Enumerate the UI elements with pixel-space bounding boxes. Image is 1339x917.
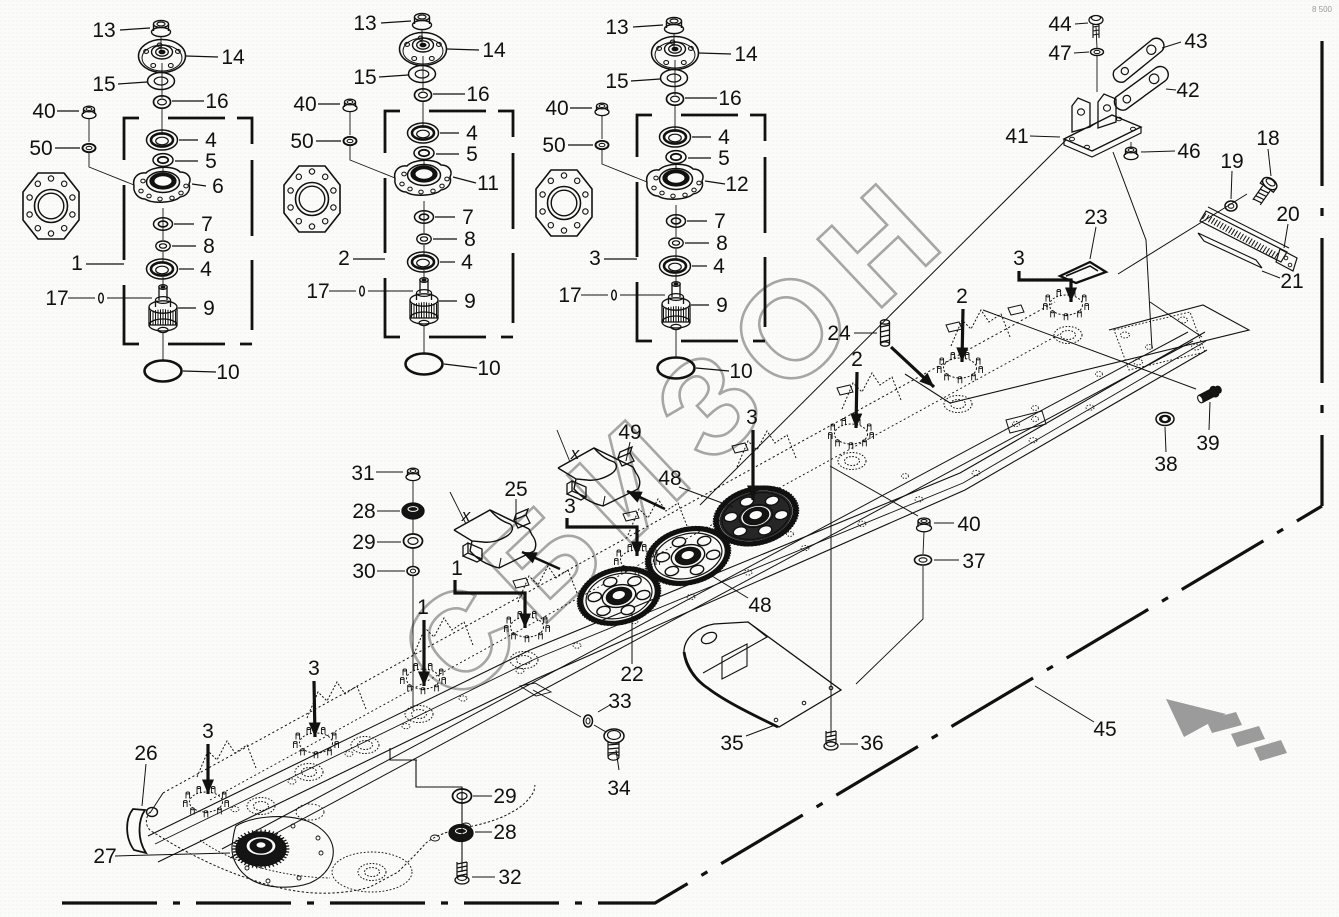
fitting 39 [1196,383,1224,405]
column 31 line [412,481,414,503]
svg-text:16: 16 [205,90,228,113]
svg-text:2: 2 [338,247,350,270]
svg-text:45: 45 [1093,718,1116,741]
hub 14 [652,37,699,70]
gear 22 label [631,612,633,664]
deck small tabs [1008,305,1024,315]
svg-text:24: 24 [827,322,851,345]
washer 8 [156,241,170,251]
dotted seat ring 4 [510,652,538,669]
svg-text:28: 28 [493,821,516,844]
end cap 26 [127,809,146,853]
svg-text:10: 10 [216,361,239,384]
assembly label 1 [86,263,124,265]
svg-text:19: 19 [1220,150,1243,173]
deck dotted mount rect [1114,312,1205,370]
label 45 [1035,686,1094,722]
link 42 [1111,63,1172,113]
svg-text:26: 26 [134,742,157,765]
octagonal drive plate [284,166,340,232]
svg-text:35: 35 [720,732,743,755]
dotted seat ring 5 [838,453,866,470]
guard fin 0 [197,741,256,777]
gearbox inner details [332,852,412,892]
housing 6 [134,167,190,202]
castellated spindle ring 4 [621,550,654,570]
svg-text:40: 40 [293,93,316,116]
assembly label 2 [353,258,385,260]
leader to bar [1118,194,1247,274]
svg-text:40: 40 [32,100,55,123]
cutter bar front lip [155,341,1206,844]
svg-text:7: 7 [462,206,474,229]
washer 37 [915,555,932,565]
seal 5 [666,151,686,164]
ring 29a [404,534,423,548]
svg-text:6: 6 [212,175,224,198]
deck inner dotted line [210,334,1060,800]
svg-text:12: 12 [725,173,748,196]
svg-text:7: 7 [201,213,213,236]
dotted seat ring 2 [351,737,379,754]
svg-text:11: 11 [477,172,499,195]
nut 40b [917,524,932,532]
ring 30 [407,567,419,576]
guard fin 4 [628,499,687,535]
ring 16 [415,89,432,101]
washer 29b [453,789,472,803]
washer 47 [1091,49,1104,56]
washer 7 [667,215,686,227]
svg-text:32: 32 [498,866,521,889]
svg-text:23: 23 [1084,206,1107,229]
bearing 4 (lower) [408,252,439,272]
svg-text:1: 1 [71,252,83,275]
svg-text:4: 4 [200,258,212,281]
svg-text:28: 28 [352,500,375,523]
svg-text:47: 47 [1048,42,1071,65]
svg-text:8: 8 [716,232,728,255]
svg-text:13: 13 [353,12,376,35]
washer 7 [154,218,173,230]
dotted seat ring 8 [358,864,386,881]
svg-text:50: 50 [290,130,313,153]
castellated spindle ring 0 [190,792,223,812]
svg-text:40: 40 [957,513,980,536]
svg-text:13: 13 [92,19,115,42]
castellated spindle ring 2 [407,669,440,689]
svg-text:33: 33 [608,690,631,713]
gearbox plate around gear 27 [232,817,333,888]
octagonal drive plate [536,170,592,236]
svg-text:3: 3 [564,495,576,518]
svg-text:50: 50 [29,137,52,160]
o-ring 10 [145,361,182,382]
nut 13 [152,27,171,36]
cover 25 label [515,499,517,523]
bearing 4 (upper) [660,127,691,147]
bolt 44 [1089,16,1103,25]
spring pin 24 [881,322,890,344]
svg-text:40: 40 [545,97,568,120]
svg-text:15: 15 [92,73,115,96]
svg-text:37: 37 [962,550,985,573]
octagonal drive plate [23,173,79,239]
left gearbox housing outline [146,785,535,893]
svg-text:5: 5 [718,147,730,170]
o-ring 10 [406,354,443,375]
washer 8 [669,238,683,248]
link 43 [1110,35,1168,85]
svg-text:42: 42 [1176,79,1199,102]
bearing 4 (upper) [147,130,178,150]
nut 13 [665,24,684,33]
svg-text:16: 16 [466,83,489,106]
cutter bar front edge [148,332,1205,836]
front face bolt holes [231,807,239,812]
seal 5 [153,154,173,167]
dashed enclosure box [637,115,765,341]
washer 15 [409,66,436,83]
svg-text:3: 3 [589,247,601,270]
idler gear 48 middle [638,517,737,595]
bolt 44 to washer 47 line [1096,27,1097,48]
svg-text:15: 15 [353,66,376,89]
svg-text:1: 1 [417,596,429,619]
washer 7 [415,211,434,223]
hub 14 [400,33,447,66]
cutter bar back edge [163,302,1055,793]
guard fin 7 [951,310,1010,346]
support plate (right end) [905,305,1249,403]
watermark BIZON [370,144,980,731]
castellated spindle ring 1 [300,733,333,753]
svg-text:15: 15 [605,70,628,93]
dark gear 27 [236,832,286,866]
ring 16 [154,96,171,108]
dashed enclosure box [124,118,252,344]
bearing 4 (upper) [408,123,439,143]
svg-text:18: 18 [1256,127,1279,150]
bar right end edge [1150,302,1202,337]
pinion shaft 9 [420,280,428,293]
svg-text:30: 30 [352,560,375,583]
svg-text:3: 3 [308,657,320,680]
pin 17 [99,293,104,303]
castellated spindle ring 7 [1050,295,1083,315]
rail small holes [1032,406,1039,411]
guard fin 2 [414,618,473,654]
pinion shaft 9 [159,287,167,300]
svg-text:4: 4 [461,251,473,274]
border bottom dash-dot [62,506,1322,903]
dotted seat ring 0 [247,798,275,815]
nut 13 [413,20,432,29]
svg-text:3: 3 [1013,247,1025,270]
svg-text:44: 44 [1048,13,1072,36]
bracket leaders [700,140,1066,505]
ring 16 [667,93,684,105]
pinion shaft 9 [672,284,680,297]
svg-text:21: 21 [1280,270,1303,293]
svg-text:50: 50 [542,134,565,157]
svg-text:29: 29 [493,785,516,808]
svg-text:9: 9 [464,290,476,313]
nut 40 [595,108,609,115]
svg-text:9: 9 [716,294,728,317]
svg-text:29: 29 [352,531,375,554]
svg-text:3: 3 [746,406,758,429]
svg-text:36: 36 [860,732,883,755]
washer 38 [1156,413,1174,426]
dotted seat ring 6 [944,396,972,413]
cover plate 25 [454,509,536,568]
cover 49 label [626,442,630,461]
housing 11 [395,160,451,195]
stack 29-28-32 leader [390,748,417,760]
border right dash-dot [1320,41,1323,506]
guard fin 3 [518,566,577,602]
svg-text:x: x [570,444,580,463]
svg-text:31: 31 [351,462,374,485]
svg-text:2: 2 [956,285,968,308]
svg-text:7: 7 [714,210,726,233]
svg-text:49: 49 [618,421,641,444]
dashed enclosure box [385,111,513,337]
svg-text:17: 17 [45,287,68,310]
svg-text:25: 25 [504,478,527,501]
bolt 36 [830,435,832,737]
svg-text:20: 20 [1276,203,1299,226]
svg-text:10: 10 [729,360,752,383]
dotted seat ring 3 [405,706,433,723]
dotted seat ring 1 [295,764,323,781]
washer 15 [148,73,175,90]
svg-text:17: 17 [558,284,581,307]
washer 15 [661,70,688,87]
gear 48 top label [679,487,733,507]
svg-text:4: 4 [713,255,725,278]
nut 40 [343,104,357,111]
svg-text:8: 8 [464,228,476,251]
svg-text:5: 5 [466,143,478,166]
ring 50 [83,144,96,152]
wear bar 20 [1200,211,1287,262]
knife back rail [222,332,1188,849]
svg-text:34: 34 [607,777,631,800]
bolt 32 [457,862,467,878]
svg-text:8: 8 [203,235,215,258]
svg-text:4: 4 [718,126,730,149]
bearing 4 (lower) [147,259,178,279]
spindle assembly 3 [536,16,765,383]
castellated spindle ring 6 [944,358,977,378]
grommet 28a [402,503,424,519]
castellated spindle ring 3 [511,617,544,637]
svg-text:1: 1 [451,557,463,580]
stack center line [421,29,423,45]
seal 5 [414,147,434,160]
svg-text:9: 9 [203,297,215,320]
washer 19 [1225,201,1237,211]
svg-text:8 500: 8 500 [1312,5,1333,14]
svg-text:5: 5 [205,150,217,173]
gear 48 mid label [712,576,748,598]
pin 17 [612,290,617,300]
bearing 4 (lower) [660,256,691,276]
svg-text:48: 48 [658,467,681,490]
svg-text:14: 14 [221,46,245,69]
guard fin 5 [737,431,796,467]
clip 23 [1060,262,1106,283]
bracket 41 [1064,115,1141,151]
40b-37 leaders [830,466,918,516]
svg-text:4: 4 [205,129,217,152]
svg-text:4: 4 [466,122,478,145]
svg-text:10: 10 [477,357,500,380]
svg-text:22: 22 [620,663,643,686]
stack center line [160,36,162,52]
idler gear 22 [570,557,667,634]
svg-text:48: 48 [748,594,771,617]
svg-text:13: 13 [605,16,628,39]
skid plate 35 [684,622,841,727]
hub 14 [139,40,186,73]
dotted seat ring 7 [1054,327,1082,344]
ring 50 [344,137,357,145]
nut 40 [82,111,96,118]
idler gear 48 top [706,477,806,556]
cover plate 49 [558,447,640,506]
bolt 34 [520,683,551,696]
svg-text:2: 2 [851,348,863,371]
castellated spindle ring 5 [835,424,868,444]
o-ring 10 [658,358,695,379]
nut 46 [1124,152,1138,159]
skid 35 label [746,725,775,736]
washer 33 [584,715,593,727]
spindle assembly 1 [23,19,252,384]
nut 31 [406,473,420,480]
svg-text:17: 17 [306,280,329,303]
svg-text:14: 14 [734,43,758,66]
direction arrow 45 [1166,699,1287,761]
svg-text:46: 46 [1177,140,1200,163]
grommet 28b [449,825,473,842]
cutter bar front face bottom [158,350,1207,862]
spindle assembly 2 [284,12,513,380]
bolt 18 [1250,175,1279,207]
ring 50 [596,141,609,149]
guard fin 6 [842,373,901,409]
washer 8 [417,234,431,244]
knife bar 21 [1198,233,1262,268]
svg-text:16: 16 [718,87,741,110]
svg-text:27: 27 [93,845,116,868]
small bracket below rail [1006,411,1046,433]
svg-text:3: 3 [202,720,214,743]
housing 12 [647,164,703,199]
pin 17 [360,286,365,296]
stack center line [673,33,675,49]
svg-text:41: 41 [1005,125,1028,148]
svg-text:14: 14 [482,39,506,62]
guard fin 1 [307,682,366,718]
assembly label 3 [604,258,637,260]
39 leader [983,310,1196,389]
svg-text:39: 39 [1196,432,1219,455]
svg-text:38: 38 [1154,453,1177,476]
svg-text:43: 43 [1184,30,1207,53]
